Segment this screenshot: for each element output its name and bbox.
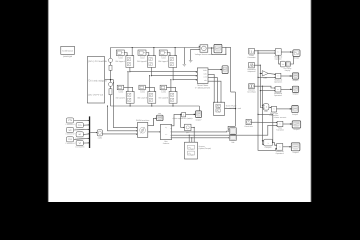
- svg-text:SM Upper2: SM Upper2: [137, 60, 147, 63]
- svg-text:rad/s: rad/s: [98, 136, 102, 139]
- wire C M5: [272, 143, 276, 146]
- vi out wire 1: [208, 69, 222, 70]
- scope drop wire a: [191, 138, 193, 142]
- svg-text:Scope7: Scope7: [195, 118, 201, 121]
- mux input wires: [74, 120, 89, 144]
- PMSM machine block: [136, 119, 149, 137]
- constant block 4: [75, 123, 85, 131]
- mux block: [89, 116, 90, 148]
- ground wire 1: [183, 48, 185, 65]
- upper gate wire 1: [124, 53, 127, 56]
- phase line A: [130, 71, 197, 72]
- scope2 block: [195, 111, 201, 122]
- three-phase VI measurement block: [195, 68, 211, 89]
- svg-text:sig: sig: [165, 126, 167, 129]
- wire S1a S1b: [284, 63, 287, 65]
- lower phase drop wire 2: [149, 75, 150, 91]
- svg-text:SM Lower3: SM Lower3: [159, 97, 169, 100]
- source block L1: [247, 48, 255, 59]
- constant block 1: [65, 118, 75, 126]
- long scope vertical wire: [228, 47, 235, 129]
- wire M2 R2: [281, 75, 293, 76]
- block M4: [276, 121, 284, 131]
- machine feed vertical B: [113, 80, 137, 129]
- svg-text:Transition: Transition: [276, 129, 284, 132]
- relational block M3: [274, 87, 283, 97]
- bus sel out wire h3: [172, 130, 230, 132]
- wire M3b R3b: [277, 108, 292, 109]
- svg-text:Selector: Selector: [163, 142, 170, 145]
- lower gate wire 3: [167, 87, 176, 91]
- scope1 block: [214, 44, 222, 52]
- svg-text:Sequence: Sequence: [247, 70, 255, 73]
- svg-text:<Stator current>: <Stator current>: [274, 116, 287, 119]
- upper gate subsystem 1: [116, 50, 124, 59]
- wire M3 in2: [260, 90, 275, 91]
- constant block 3: [65, 137, 75, 145]
- vm output wire: [208, 47, 214, 48]
- scope block R4: [292, 121, 301, 131]
- svg-text:1/z: 1/z: [282, 63, 284, 66]
- scope block R2: [292, 73, 298, 82]
- svg-text:V-I Measurement: V-I Measurement: [195, 86, 211, 89]
- svg-text:Display: Display: [285, 69, 291, 72]
- constant block 5: [75, 132, 85, 140]
- svg-text:Sine Wave: Sine Wave: [247, 91, 256, 94]
- svg-text:SM Lower1: SM Lower1: [116, 97, 126, 100]
- svg-text:Scope3: Scope3: [293, 128, 299, 131]
- DC source subsystem block: [87, 57, 108, 103]
- top DC bus wire: [111, 47, 201, 49]
- upper submodule block 2: [137, 55, 155, 68]
- scope b block: [222, 66, 228, 74]
- svg-text:PMSM machine: PMSM machine: [136, 119, 149, 122]
- vi out wire 4: [208, 81, 222, 103]
- svg-text:Scope2: Scope2: [292, 93, 298, 96]
- machine input wire 2: [102, 134, 137, 135]
- svg-text:Compare: Compare: [265, 146, 272, 149]
- speed out wire: [191, 127, 195, 128]
- blk2 feed wire: [181, 114, 185, 128]
- vm branch wire: [212, 47, 227, 54]
- gain out wire: [186, 114, 196, 115]
- bus sel out wire h2: [172, 137, 230, 138]
- lower leg wire 2: [151, 103, 152, 106]
- scope drop wire b: [188, 135, 190, 142]
- machine scope wire: [148, 118, 157, 126]
- upper submodule block 1: [115, 55, 133, 68]
- lower submodule block 1: [116, 91, 134, 103]
- bus sel out wire h1: [172, 125, 278, 136]
- scope group block: [185, 142, 212, 159]
- white canvas: [48, 0, 312, 202]
- wire L4 M4: [251, 122, 277, 123]
- relational block M1: [274, 49, 283, 61]
- svg-text:Scope1: Scope1: [292, 79, 298, 82]
- lower gate subsystem 2: [139, 85, 145, 93]
- lower gate wire 2: [145, 87, 154, 91]
- svg-text:(DC+) PV Vout/Vdc: (DC+) PV Vout/Vdc: [88, 60, 108, 63]
- ground symbol 1: [183, 64, 187, 66]
- wire M4 R4: [283, 123, 292, 124]
- constant block 2: [65, 127, 75, 135]
- svg-text:Operator4: Operator4: [276, 152, 284, 155]
- wire M1 in2: [257, 53, 275, 54]
- powergui block: [61, 46, 75, 58]
- upper gate subsystem 3: [159, 50, 167, 59]
- gain triangle: [262, 71, 268, 80]
- svg-text:Gain: Gain: [263, 76, 267, 79]
- block M3b: [269, 106, 278, 117]
- svg-text:<Rotor speed wm (rad/s)>: <Rotor speed wm (rad/s)>: [172, 117, 193, 120]
- wire M3 R3: [281, 89, 293, 90]
- svg-text:Generator: Generator: [247, 56, 255, 59]
- upper gate wire 3: [167, 53, 170, 56]
- ground symbol 2: [189, 61, 193, 63]
- svg-text:abc: abc: [204, 79, 207, 82]
- svg-text:Scope4: Scope4: [293, 151, 299, 154]
- upper gate subsystem 2: [138, 50, 146, 59]
- svg-text:powergui: powergui: [63, 55, 72, 58]
- stacked input wire: [0, 0, 1, 1]
- wire gain M2: [268, 73, 275, 75]
- svg-text:SM Upper3: SM Upper3: [158, 60, 168, 63]
- lower submodule block 3: [159, 91, 177, 103]
- wire L1 to M1: [254, 50, 275, 51]
- lower leg wire 3: [172, 103, 173, 106]
- relational block M2: [274, 73, 283, 83]
- scope drop wire c: [193, 127, 195, 142]
- svg-text:SM Lower2: SM Lower2: [137, 97, 147, 100]
- gain rad2rpm block: [182, 113, 186, 117]
- svg-text:Clock time: Clock time: [244, 125, 252, 128]
- wire L3 out: [254, 86, 275, 89]
- machine feed vertical A: [107, 105, 137, 131]
- wire v262: [262, 86, 264, 145]
- constant block 6: [75, 141, 85, 149]
- lower gate subsystem 3: [160, 85, 166, 93]
- svg-text:Operator1: Operator1: [274, 81, 282, 84]
- upper leg wire 1: [129, 67, 130, 72]
- upper leg wire 3: [173, 67, 174, 80]
- rotor speed label: [172, 117, 193, 120]
- signal label row4: [274, 116, 287, 119]
- svg-text:Vabc: Vabc: [203, 69, 207, 72]
- svg-text:Iabc: Iabc: [203, 73, 207, 76]
- svg-text:Constant3: Constant3: [65, 142, 75, 145]
- logical operator block C4: [263, 104, 269, 113]
- svg-text:Constant1: Constant1: [65, 123, 75, 126]
- vi out wire 2: [208, 74, 215, 102]
- voltage measurement input arrows: [199, 46, 200, 50]
- mux output wire: [90, 132, 97, 133]
- lower phase drop wire 3: [170, 79, 171, 91]
- wire M2 in2: [257, 77, 275, 78]
- svg-text:Vdc: Vdc: [231, 141, 234, 144]
- wire gain in: [260, 73, 262, 74]
- scope feed wire top: [222, 46, 231, 48]
- lower gate subsystem 1: [117, 85, 123, 93]
- wire v258: [258, 51, 277, 151]
- svg-text:Operator2: Operator2: [274, 94, 282, 97]
- signal conversion block: [97, 130, 102, 140]
- comparator block C: [264, 139, 273, 149]
- load output wire: [225, 108, 236, 109]
- svg-text:Continuous: Continuous: [62, 49, 74, 52]
- wire L2 out: [254, 65, 261, 66]
- stacked display block 2: [229, 135, 236, 144]
- svg-text:com: com: [203, 76, 207, 79]
- source block L4: [244, 119, 252, 128]
- svg-text:Scope: Scope: [294, 56, 299, 59]
- unit delay S1a: [280, 61, 285, 67]
- scope block R5: [291, 143, 300, 154]
- upper bus drop wire 1: [132, 47, 133, 55]
- svg-text:wm: wm: [158, 113, 161, 115]
- svg-text:wr: wr: [79, 133, 82, 136]
- source block L2: [247, 62, 255, 72]
- lower submodule block 2: [137, 91, 155, 103]
- wire M1 R1: [281, 51, 293, 53]
- speed conversion block: [185, 124, 192, 134]
- bus selector block: [160, 124, 171, 145]
- wire M5 R5: [283, 146, 292, 147]
- phase line B: [152, 75, 197, 76]
- scope block R1: [293, 50, 300, 60]
- wire v260: [260, 65, 263, 108]
- machine to bus selector wire: [148, 131, 161, 132]
- midpoint wire: [105, 79, 114, 80]
- stacked display block 1: [229, 128, 236, 135]
- svg-text:Voltage Measurement: Voltage Measurement: [195, 53, 214, 56]
- svg-text:Vf: Vf: [79, 142, 82, 145]
- source block L3: [247, 84, 256, 94]
- svg-text:Scope6: Scope6: [292, 113, 298, 116]
- S1 labels: [284, 67, 292, 72]
- wire C4 M3b: [269, 107, 272, 108]
- DC link source chain: [108, 48, 112, 107]
- upper bus drop wire 3: [175, 47, 176, 55]
- vi out wire 3: [208, 78, 218, 103]
- three-phase load block: [214, 102, 241, 115]
- upper leg wire 2: [151, 67, 152, 76]
- wire M1 S1: [279, 55, 281, 64]
- svg-text:Tm: Tm: [78, 124, 81, 127]
- svg-text:(Speed,Torque): (Speed,Torque): [199, 147, 212, 150]
- wire S1b up: [290, 56, 293, 64]
- lower gate wire 1: [124, 87, 133, 91]
- voltage measurement block: [195, 45, 214, 56]
- scope block R3: [292, 86, 298, 95]
- ground wire 2: [191, 49, 200, 60]
- block M5: [276, 144, 285, 156]
- upper submodule block 3: [158, 55, 176, 68]
- unit delay S1b: [286, 61, 290, 67]
- scope block R3b: [292, 106, 298, 116]
- machine scope3 block: [157, 113, 164, 121]
- svg-text:(+) Vdc midpoint: (+) Vdc midpoint: [91, 79, 107, 82]
- svg-text:Constant6: Constant6: [75, 146, 85, 149]
- svg-text:SM Upper1: SM Upper1: [115, 60, 125, 63]
- phase line C: [173, 79, 197, 80]
- upper gate wire 2: [146, 53, 149, 56]
- rotor speed wire: [172, 114, 182, 126]
- svg-text:Constant2: Constant2: [65, 133, 75, 136]
- svg-text:2*N: 2*N: [68, 119, 72, 122]
- lower phase drop wire 1: [127, 71, 128, 91]
- wire v258 branch: [257, 114, 273, 143]
- svg-text:(DC-) N PV out: (DC-) N PV out: [88, 94, 103, 97]
- lower leg wire 1: [130, 103, 131, 106]
- bottom DC bus wire: [111, 106, 200, 111]
- upper bus drop wire 2: [153, 47, 154, 55]
